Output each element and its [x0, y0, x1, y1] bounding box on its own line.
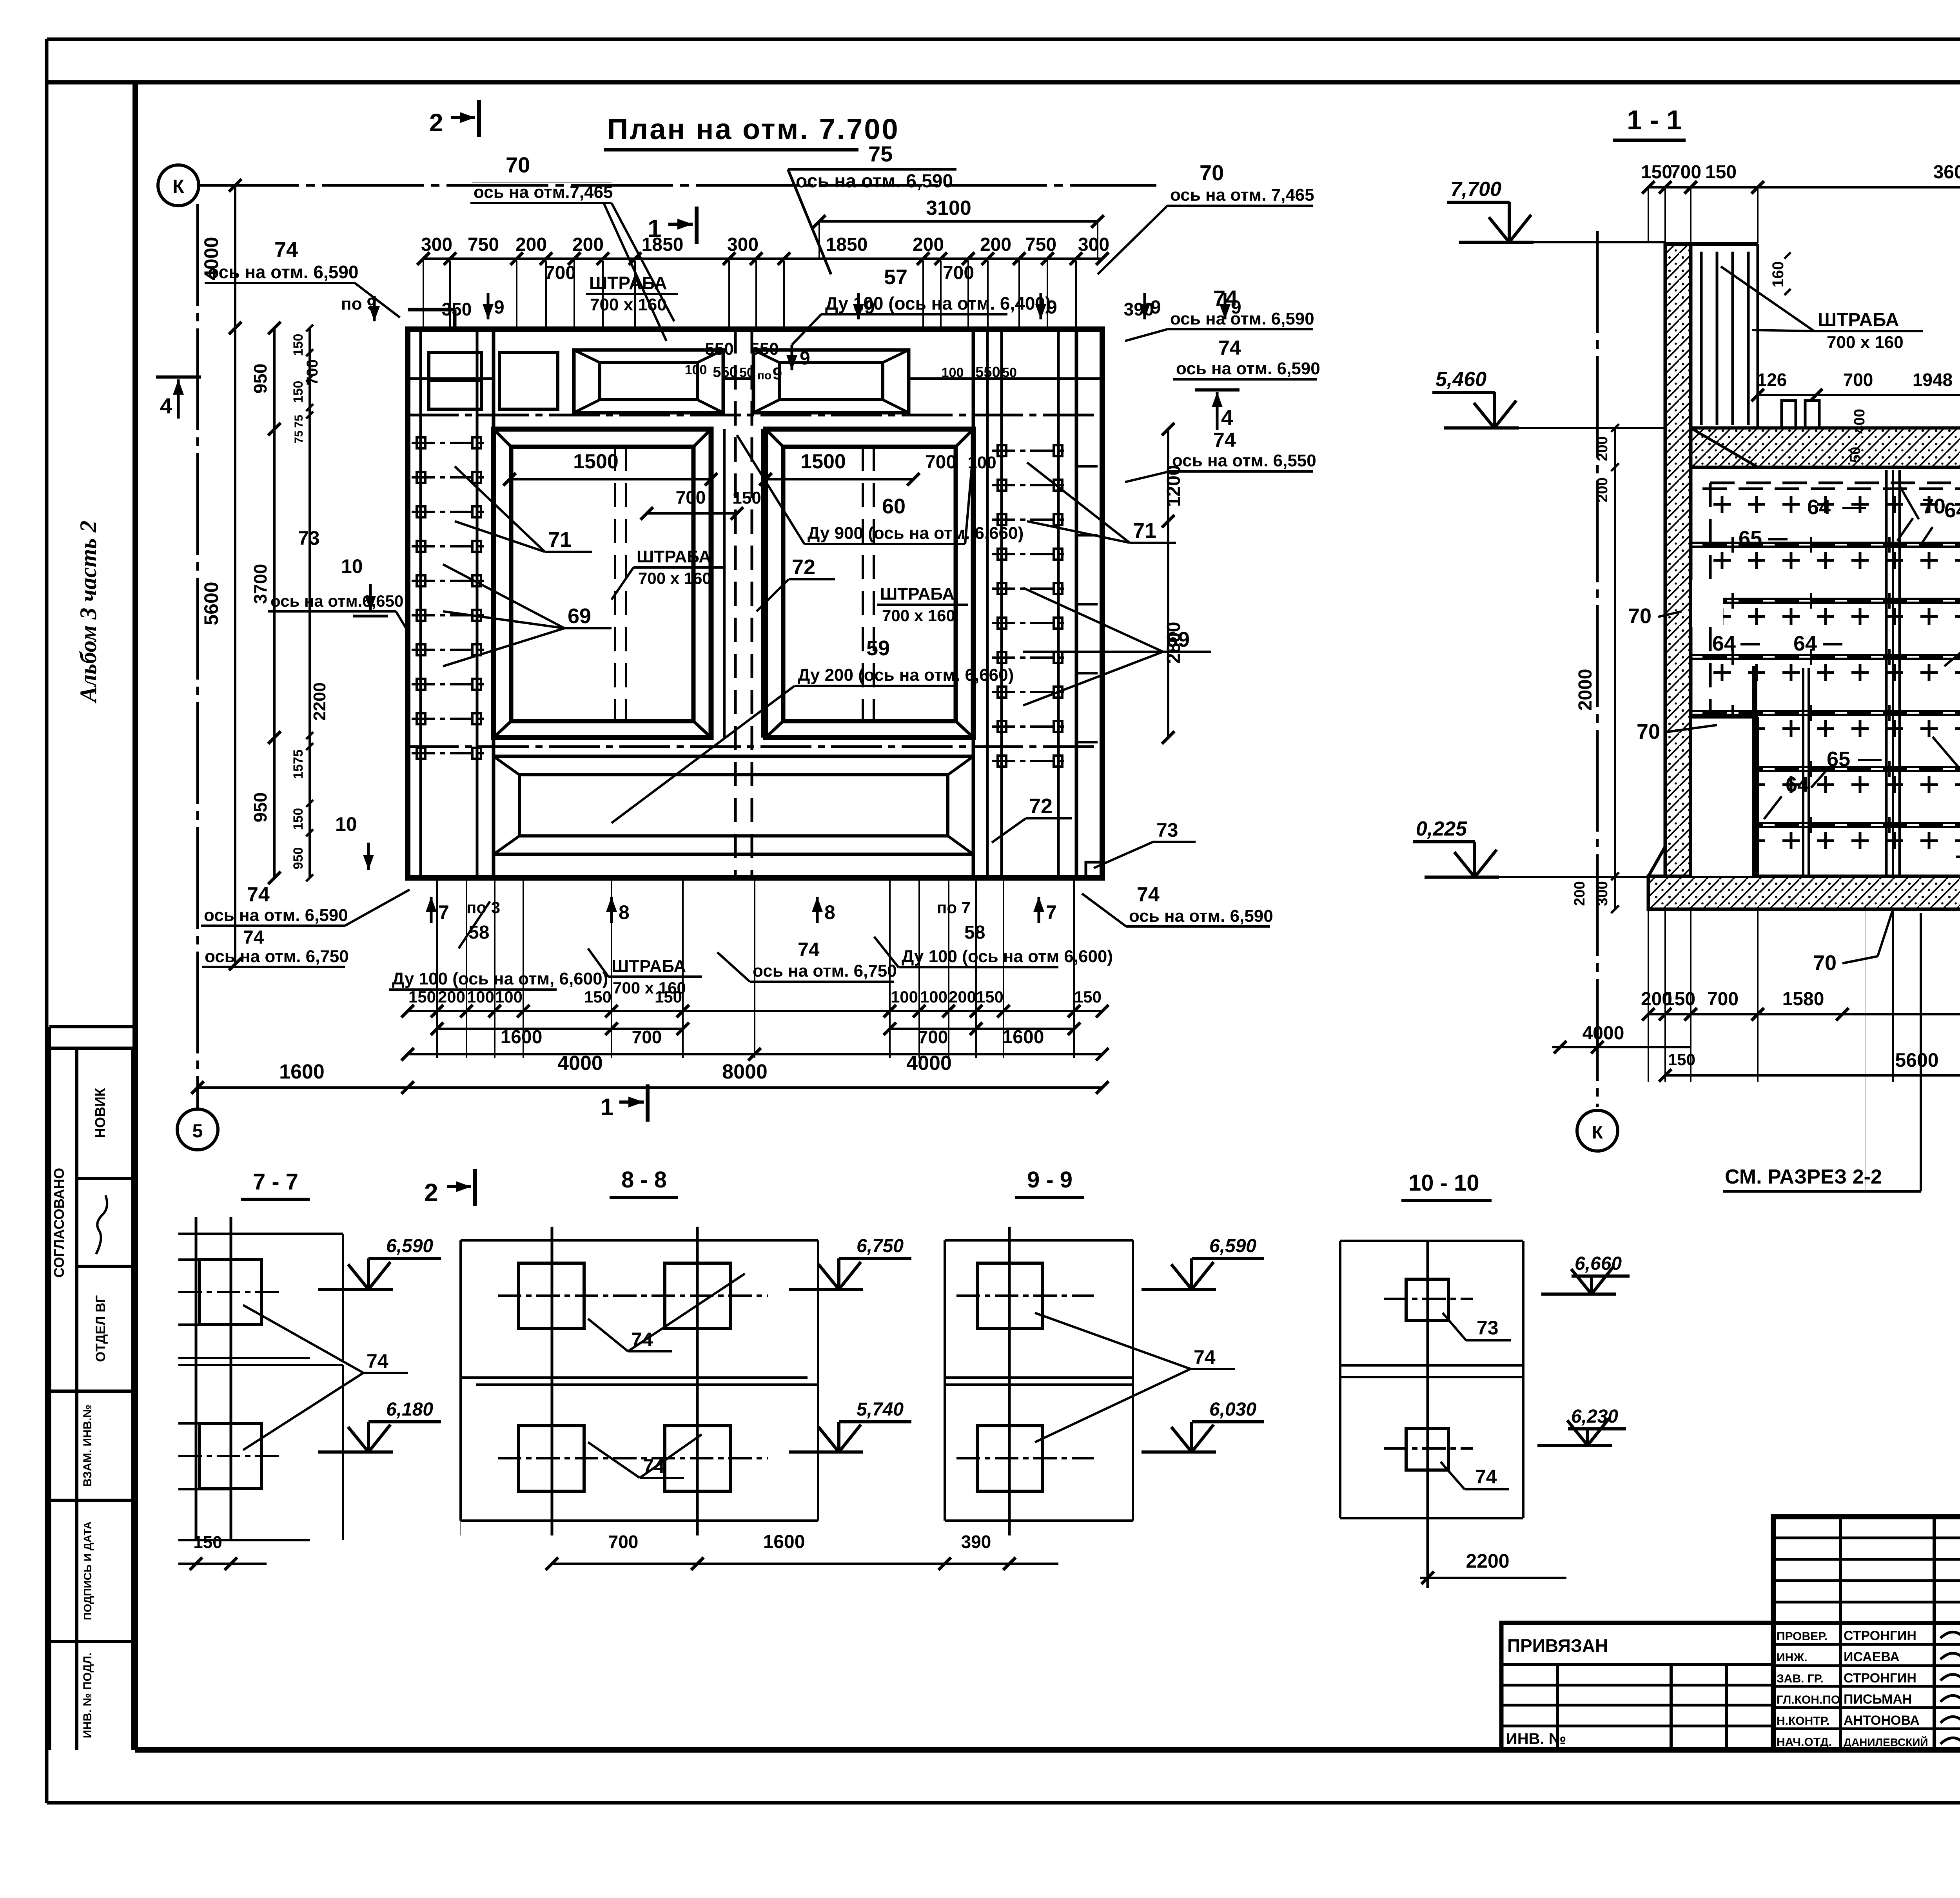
svg-text:ось на отм. 6,590: ось на отм. 6,590 — [204, 906, 348, 925]
svg-text:4: 4 — [160, 393, 172, 418]
svg-text:200: 200 — [515, 234, 547, 255]
svg-text:5600: 5600 — [1895, 1049, 1938, 1071]
svg-text:ось на отм. 6,750: ось на отм. 6,750 — [753, 961, 897, 981]
svg-text:2000: 2000 — [1575, 669, 1596, 711]
svg-text:74: 74 — [798, 939, 820, 961]
svg-text:ось на отм. 6,590: ось на отм. 6,590 — [208, 262, 358, 282]
svg-text:60: 60 — [882, 495, 906, 518]
svg-text:ось на отм. 6,590: ось на отм. 6,590 — [796, 171, 953, 192]
svg-text:по 7: по 7 — [937, 898, 971, 917]
svg-text:750: 750 — [468, 234, 499, 255]
svg-text:10 - 10: 10 - 10 — [1408, 1170, 1479, 1196]
svg-text:72: 72 — [1029, 794, 1053, 818]
svg-text:5: 5 — [192, 1121, 203, 1142]
svg-text:6,750: 6,750 — [857, 1236, 904, 1256]
svg-text:8: 8 — [619, 901, 630, 923]
svg-text:950: 950 — [250, 792, 270, 823]
svg-text:ПРОВЕР.: ПРОВЕР. — [1777, 1630, 1828, 1643]
svg-text:1500: 1500 — [573, 450, 619, 473]
svg-text:200: 200 — [572, 234, 604, 255]
svg-text:59: 59 — [866, 636, 890, 660]
svg-text:150: 150 — [1668, 1050, 1695, 1069]
svg-text:390: 390 — [961, 1532, 991, 1552]
svg-text:6,590: 6,590 — [386, 1236, 433, 1256]
svg-text:5,740: 5,740 — [857, 1399, 904, 1420]
svg-text:7: 7 — [438, 901, 449, 923]
svg-text:ось на отм. 6,590: ось на отм. 6,590 — [1176, 359, 1320, 378]
svg-text:74: 74 — [274, 238, 298, 261]
svg-text:ИНЖ.: ИНЖ. — [1777, 1651, 1808, 1664]
svg-text:4000: 4000 — [1583, 1023, 1624, 1044]
svg-text:СТРОНГИН: СТРОНГИН — [1844, 1671, 1916, 1686]
svg-text:4000: 4000 — [906, 1052, 952, 1075]
svg-text:1850: 1850 — [826, 234, 868, 255]
svg-text:НОВИК: НОВИК — [92, 1088, 108, 1138]
svg-text:9: 9 — [494, 297, 505, 318]
svg-text:50: 50 — [1847, 447, 1863, 462]
svg-text:1: 1 — [601, 1094, 613, 1120]
svg-text:700: 700 — [1707, 989, 1739, 1010]
svg-text:СМ. РАЗРЕЗ 2-2: СМ. РАЗРЕЗ 2-2 — [1725, 1166, 1882, 1188]
svg-text:9: 9 — [1231, 297, 1241, 318]
svg-text:2200: 2200 — [1466, 1550, 1509, 1572]
svg-text:200: 200 — [1572, 881, 1588, 906]
svg-text:1600: 1600 — [279, 1060, 325, 1083]
svg-text:150: 150 — [976, 988, 1004, 1006]
svg-text:5,460: 5,460 — [1436, 368, 1486, 391]
svg-text:Альбом 3 часть 2: Альбом 3 часть 2 — [75, 520, 101, 703]
svg-text:700: 700 — [925, 452, 956, 473]
svg-text:5600: 5600 — [200, 582, 222, 625]
svg-text:200: 200 — [913, 234, 944, 255]
svg-text:Н.КОНТР.: Н.КОНТР. — [1777, 1715, 1829, 1728]
svg-text:ось на отм.6,650: ось на отм.6,650 — [270, 592, 403, 610]
svg-text:9: 9 — [864, 297, 875, 318]
svg-text:ось на отм. 6,590: ось на отм. 6,590 — [1129, 906, 1273, 926]
svg-text:100: 100 — [920, 988, 947, 1006]
svg-text:7: 7 — [1046, 901, 1057, 923]
svg-text:700: 700 — [608, 1532, 639, 1552]
svg-text:6,660: 6,660 — [1575, 1253, 1622, 1274]
svg-text:ШТРАБА: ШТРАБА — [612, 957, 686, 976]
svg-text:6,180: 6,180 — [386, 1399, 433, 1420]
svg-text:ШТРАБА: ШТРАБА — [880, 584, 955, 604]
svg-text:9: 9 — [1151, 297, 1161, 318]
svg-text:ПОДПИСЬ И ДАТА: ПОДПИСЬ И ДАТА — [82, 1521, 94, 1620]
svg-text:ось на отм. 6,590: ось на отм. 6,590 — [1170, 309, 1314, 328]
svg-text:700: 700 — [1843, 370, 1873, 390]
svg-text:71: 71 — [1133, 519, 1156, 542]
svg-text:ось на отм. 7,465: ось на отм. 7,465 — [1170, 185, 1314, 205]
svg-text:700 x 160: 700 x 160 — [613, 979, 686, 997]
svg-text:7,700: 7,700 — [1450, 178, 1501, 201]
svg-text:2: 2 — [429, 109, 443, 137]
svg-text:6,030: 6,030 — [1209, 1399, 1256, 1420]
svg-text:64: 64 — [1712, 632, 1736, 655]
svg-text:Ду 100 (ось на отм, 6,600): Ду 100 (ось на отм, 6,600) — [392, 969, 608, 988]
svg-text:ЗАВ. ГР.: ЗАВ. ГР. — [1777, 1672, 1824, 1685]
svg-text:4: 4 — [1221, 405, 1233, 430]
svg-text:АНТОНОВА: АНТОНОВА — [1844, 1713, 1920, 1728]
svg-text:700 x 160: 700 x 160 — [638, 569, 711, 587]
svg-text:700 x 160: 700 x 160 — [590, 295, 667, 314]
svg-text:390: 390 — [1124, 299, 1154, 319]
svg-text:1850: 1850 — [642, 234, 684, 255]
svg-text:69: 69 — [568, 604, 591, 628]
svg-text:73: 73 — [298, 527, 320, 549]
svg-text:70: 70 — [506, 152, 530, 177]
svg-text:0,225: 0,225 — [1416, 818, 1467, 840]
svg-text:160: 160 — [1769, 261, 1787, 288]
svg-text:64: 64 — [1944, 499, 1960, 522]
svg-text:74: 74 — [1213, 429, 1236, 451]
svg-text:64: 64 — [1793, 632, 1817, 655]
svg-text:ось на отм. 6,750: ось на отм. 6,750 — [205, 947, 349, 966]
svg-text:150: 150 — [1664, 989, 1695, 1010]
svg-text:Ду 100 (ось на отм 6,600): Ду 100 (ось на отм 6,600) — [902, 947, 1113, 966]
svg-text:150: 150 — [1074, 988, 1102, 1006]
svg-text:ШТРАБА: ШТРАБА — [589, 273, 667, 293]
svg-text:10: 10 — [335, 813, 357, 835]
svg-text:ГЛ.КОН.ПО: ГЛ.КОН.ПО — [1777, 1693, 1840, 1706]
svg-text:К: К — [172, 176, 184, 197]
svg-text:74: 74 — [243, 927, 264, 948]
svg-text:6,590: 6,590 — [1209, 1236, 1256, 1256]
svg-text:7 - 7: 7 - 7 — [253, 1169, 298, 1195]
svg-text:64: 64 — [1786, 773, 1809, 796]
svg-text:ВЗАМ. ИНВ.№: ВЗАМ. ИНВ.№ — [81, 1405, 94, 1487]
svg-text:9 - 9: 9 - 9 — [1027, 1167, 1073, 1193]
svg-text:950: 950 — [250, 364, 270, 394]
svg-text:План на отм. 7.700: План на отм. 7.700 — [607, 113, 900, 145]
svg-text:Ду 900 (ось на отм. 6,660): Ду 900 (ось на отм. 6,660) — [808, 524, 1024, 543]
svg-text:Ду 200 (ось на отм. 6,660): Ду 200 (ось на отм. 6,660) — [798, 665, 1014, 685]
svg-text:65: 65 — [1827, 747, 1850, 771]
svg-text:150: 150 — [1705, 162, 1737, 183]
svg-text:2: 2 — [424, 1178, 438, 1207]
svg-text:74: 74 — [247, 883, 270, 906]
svg-text:ШТРАБА: ШТРАБА — [637, 547, 711, 566]
svg-text:57: 57 — [884, 265, 907, 289]
svg-text:74: 74 — [1194, 1346, 1216, 1368]
svg-text:8000: 8000 — [722, 1060, 768, 1083]
svg-text:1500: 1500 — [800, 450, 846, 473]
svg-text:150: 150 — [193, 1533, 222, 1552]
svg-text:58: 58 — [964, 922, 985, 943]
svg-text:100: 100 — [891, 988, 918, 1006]
svg-text:ОТДЕЛ ВГ: ОТДЕЛ ВГ — [93, 1295, 108, 1362]
svg-text:74: 74 — [1475, 1466, 1497, 1488]
svg-text:74: 74 — [1218, 337, 1241, 359]
svg-text:70: 70 — [1637, 720, 1660, 743]
svg-text:8 - 8: 8 - 8 — [621, 1167, 667, 1193]
svg-text:64: 64 — [1807, 495, 1831, 519]
svg-text:ось на отм.7,465: ось на отм.7,465 — [474, 183, 613, 202]
svg-text:65: 65 — [1739, 527, 1762, 550]
svg-text:300: 300 — [421, 234, 452, 255]
svg-text:1600: 1600 — [763, 1532, 805, 1552]
svg-text:4000: 4000 — [557, 1052, 603, 1075]
svg-text:1600: 1600 — [501, 1027, 543, 1048]
svg-text:ИНВ. № ПОДЛ.: ИНВ. № ПОДЛ. — [81, 1653, 94, 1738]
svg-text:700 x 160: 700 x 160 — [882, 606, 955, 625]
svg-text:150: 150 — [291, 334, 306, 356]
svg-text:200: 200 — [980, 234, 1011, 255]
svg-text:700: 700 — [632, 1027, 662, 1047]
svg-text:74: 74 — [1137, 883, 1160, 906]
svg-text:126: 126 — [1757, 370, 1787, 390]
svg-text:1580: 1580 — [1782, 989, 1824, 1010]
svg-text:ИНВ. №: ИНВ. № — [1506, 1730, 1566, 1748]
svg-text:74: 74 — [367, 1350, 388, 1372]
svg-text:150: 150 — [584, 988, 612, 1006]
svg-text:700: 700 — [544, 263, 576, 283]
svg-text:3700: 3700 — [250, 564, 270, 604]
svg-text:700: 700 — [918, 1027, 948, 1047]
svg-text:73: 73 — [1477, 1317, 1499, 1339]
svg-text:150: 150 — [1641, 162, 1672, 183]
svg-text:2800: 2800 — [1163, 622, 1184, 664]
svg-text:ДАНИЛЕВСКИЙ: ДАНИЛЕВСКИЙ — [1844, 1736, 1928, 1748]
svg-text:СТРОНГИН: СТРОНГИН — [1844, 1628, 1916, 1643]
svg-text:К: К — [1592, 1122, 1603, 1142]
svg-text:400: 400 — [1851, 409, 1868, 433]
svg-text:70: 70 — [1200, 160, 1224, 185]
svg-text:75: 75 — [292, 415, 305, 428]
svg-text:750: 750 — [1025, 234, 1056, 255]
svg-text:ИСАЕВА: ИСАЕВА — [1844, 1650, 1900, 1664]
svg-text:НАЧ.ОТД.: НАЧ.ОТД. — [1777, 1736, 1832, 1749]
svg-text:по 3: по 3 — [466, 898, 500, 917]
svg-text:70: 70 — [1628, 604, 1651, 628]
svg-text:10: 10 — [341, 555, 363, 577]
svg-text:8: 8 — [824, 901, 835, 923]
svg-text:300: 300 — [1078, 234, 1109, 255]
svg-text:75: 75 — [292, 430, 305, 443]
svg-text:6,230: 6,230 — [1571, 1406, 1618, 1427]
svg-text:ПИСЬМАН: ПИСЬМАН — [1844, 1692, 1912, 1707]
svg-text:700: 700 — [943, 263, 974, 283]
svg-text:72: 72 — [792, 555, 815, 579]
svg-text:58: 58 — [468, 922, 489, 943]
svg-text:73: 73 — [1156, 819, 1178, 841]
svg-text:1600: 1600 — [1002, 1027, 1044, 1048]
svg-text:700 x 160: 700 x 160 — [1827, 333, 1904, 352]
svg-text:700: 700 — [304, 359, 321, 386]
svg-text:2200: 2200 — [310, 682, 329, 721]
svg-text:ось на отм. 6,550: ось на отм. 6,550 — [1172, 451, 1316, 470]
svg-text:75: 75 — [868, 141, 893, 166]
svg-text:1 - 1: 1 - 1 — [1627, 105, 1682, 135]
svg-text:700: 700 — [1670, 162, 1701, 183]
svg-text:950: 950 — [291, 847, 306, 870]
svg-text:150: 150 — [291, 808, 306, 830]
svg-text:3100: 3100 — [926, 197, 971, 219]
svg-text:70: 70 — [1922, 495, 1945, 518]
svg-text:ПРИВЯЗАН: ПРИВЯЗАН — [1507, 1635, 1608, 1656]
svg-text:СОГЛАСОВАНО: СОГЛАСОВАНО — [51, 1168, 67, 1278]
svg-text:300: 300 — [727, 234, 759, 255]
svg-text:70: 70 — [1813, 951, 1837, 975]
svg-text:3600: 3600 — [1933, 162, 1960, 183]
svg-text:1575: 1575 — [291, 749, 306, 779]
svg-text:71: 71 — [548, 528, 572, 551]
svg-text:150: 150 — [732, 488, 761, 508]
svg-text:1948: 1948 — [1913, 370, 1953, 390]
svg-text:700: 700 — [676, 487, 706, 508]
svg-text:9: 9 — [1047, 297, 1057, 318]
svg-text:по: по — [757, 369, 771, 382]
svg-text:ШТРАБА: ШТРАБА — [1818, 310, 1899, 330]
svg-text:200: 200 — [949, 988, 976, 1006]
